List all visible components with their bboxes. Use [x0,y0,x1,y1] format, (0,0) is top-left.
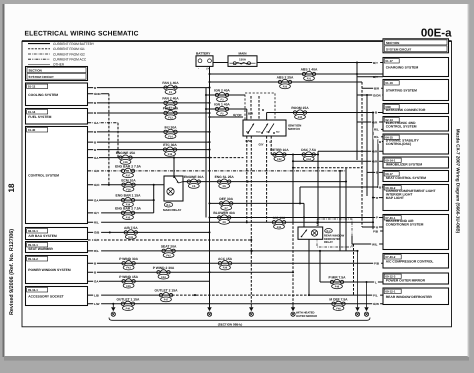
wire battery to main fuse [213,62,228,64]
svg-text:F41: F41 [129,236,134,239]
stub 4wd R/L [373,128,383,130]
stub heater R [362,226,383,228]
svg-text:F44: F44 [161,276,166,279]
svg-text:F34: F34 [306,158,311,161]
wire outlet2 dashed part [172,294,309,296]
ground G2 main bus [207,300,211,316]
wire vertical 357 [356,63,358,161]
noop [345,202,347,204]
svg-text:F26: F26 [223,267,228,270]
stub seat control B [367,171,383,173]
svg-text:F14: F14 [168,135,173,138]
svg-text:ACCESSORY SOCKET: ACCESSORY SOCKET [28,295,63,299]
svg-text:01-17: 01-17 [385,59,393,63]
svg-text:G/R: G/R [94,169,100,173]
wire DSC drop to relay [317,151,319,226]
wire G/R long dashdot [88,170,346,172]
fuse ENG BAR 2 7.5A lower [115,207,141,220]
svg-text:GND: GND [94,92,102,96]
svg-text:F32: F32 [277,158,282,161]
svg-text:F43: F43 [126,267,131,270]
wire cargo B [300,186,378,188]
right box power outer mirror [383,273,449,284]
svg-text:B/Y: B/Y [373,61,378,65]
svg-text:B/R: B/R [374,87,380,91]
svg-text:RELAY: RELAY [324,241,333,244]
dashed lead inside switch box [250,96,252,120]
svg-text:09-12-2: 09-12-2 [28,257,38,261]
fuse ABS 1 40A [301,68,318,81]
svg-text:P/L: P/L [373,293,378,297]
svg-text:CHARGING SYSTEM: CHARGING SYSTEM [386,66,419,70]
main fusible link MAIN 150A [228,52,257,67]
svg-text:18: 18 [7,183,16,192]
svg-text:F21: F21 [307,78,312,81]
fuse ECM 10A [121,178,136,191]
wire pwind B1 [88,262,383,264]
stub 4wd G/R [357,121,383,123]
wire control ECM [88,184,166,186]
svg-text:POWER WINDOW SYSTEM: POWER WINDOW SYSTEM [28,268,71,272]
svg-text:STARTING SYSTEM: STARTING SYSTEM [386,89,417,93]
wire METER row [271,154,318,156]
svg-text:150A: 150A [239,57,247,61]
fuse P WIND 30A [119,257,138,270]
right box charging system [383,58,449,77]
svg-text:G/W: G/W [373,302,379,306]
svg-text:-: - [198,67,199,71]
wire heater W/L from relay [352,243,383,245]
label P heater [375,216,379,220]
svg-text:P/B: P/B [373,229,379,233]
wire fuel B [88,112,210,114]
fuse METER sym [270,148,289,161]
right header box SECTION / SYSTEM CIRCUIT [383,39,449,53]
label G/R immob [371,159,379,163]
fuse DEF 30A [219,197,233,210]
fuse P MIR sym [329,276,347,289]
svg-text:MAIN: MAIN [239,52,248,56]
svg-text:F42: F42 [166,254,171,257]
fuse OUTLET 1 15A [116,297,140,310]
label G/W [372,302,380,306]
vertical cargo tap [299,187,301,203]
left box accessory socket [26,287,88,306]
dashed lead 2 inside switch box [258,96,260,120]
svg-text:Revised 9/2006 (Ref. No. R127/: Revised 9/2006 (Ref. No. R127/06) [9,229,15,315]
svg-text:CURRENT FROM IG1: CURRENT FROM IG1 [53,47,85,51]
label G/R dsc [371,149,379,153]
label L mirror [374,280,378,284]
wire BLOWER row to heater [210,217,384,219]
legend current from battery [28,43,50,45]
wire G/R to immobilizer [293,160,383,162]
secondary vertical bus [205,88,207,218]
wire vertical 362 dashed [361,82,363,227]
svg-text:Mazda CX-7 2007 Wiring Diagram: Mazda CX-7 2007 Wiring Diagram (5666-1U-… [456,129,461,234]
vertical relay bottom to P/L [308,239,310,295]
wire B/Y charging lower [357,76,383,78]
left box seat warmer [26,242,88,253]
svg-text:F48: F48 [336,307,341,310]
vertical to P MIR [319,251,321,282]
vertical dashed to ground [292,222,294,307]
svg-text:F15: F15 [168,153,173,156]
wire control B1 [88,131,210,133]
svg-text:F30: F30 [298,116,303,119]
label P/B a/c comp [373,261,381,265]
svg-text:F40: F40 [126,307,131,310]
wire DEF row [210,202,305,204]
wire cooling GND [88,93,109,95]
bottom section line [109,318,370,321]
bus 373 [372,113,374,232]
svg-text:08-10-1: 08-10-1 [28,229,38,233]
fuse ACC 15A [218,257,233,270]
main relay box [164,176,183,201]
fuse P WIND 15A [119,275,138,288]
label G/OR [372,93,382,97]
svg-text:F47: F47 [164,299,169,302]
legend current from ACC [28,58,50,60]
relay top feed [173,158,175,176]
svg-text:L/W: L/W [94,302,100,306]
svg-text:01-14: 01-14 [28,110,36,114]
svg-text:G/O: G/O [94,183,100,187]
vertical meter branch [292,155,294,223]
left box air bag system [26,228,88,240]
right box starting system [383,80,449,101]
wire main fuse output B/Y to charging [257,62,383,64]
svg-text:F33: F33 [277,226,282,229]
fuse A/B 7.5A [124,226,138,239]
relay output drop [351,236,353,244]
svg-text:MAP LIGHT: MAP LIGHT [386,196,404,200]
ground G1 [111,304,115,317]
wire airbag G/B [88,231,210,233]
svg-text:G/R: G/R [94,238,100,242]
wire control B2 [88,141,210,143]
fuse ETC 30A [163,143,177,156]
svg-text:POWER OUTER MIRROR: POWER OUTER MIRROR [386,279,426,283]
wire fuel GA [88,122,118,124]
svg-text:F45: F45 [126,285,131,288]
fuse FAN 1 40A [162,81,179,94]
fuse DSC sym [301,148,316,161]
svg-text:R-2: R-2 [326,230,331,233]
svg-text:F13: F13 [168,117,173,120]
svg-text:L: L [375,280,377,284]
wire control RL [88,221,373,223]
fuse A/C 10A sym [272,216,286,229]
ignition switch SW1 [243,120,286,136]
wire ign1 drop to switch [246,109,248,120]
bus 346 [345,168,347,251]
svg-text:SEAT CONTROL SYSTEM: SEAT CONTROL SYSTEM [386,176,426,180]
rear def relay dashed enclosure [317,219,352,247]
svg-text:09-16-1: 09-16-1 [28,288,38,292]
svg-text:F35: F35 [126,216,131,219]
dashed lead IG2 down [270,136,272,155]
svg-text:F38: F38 [126,188,131,191]
fuse ENGINE 15A [116,151,136,164]
dashed continuation engine row [210,157,244,159]
svg-text:G/Y: G/Y [94,211,99,215]
right box a/c compressor [383,254,449,269]
label B/Y 2 [372,75,380,79]
svg-text:F46: F46 [335,286,340,289]
fuse OUTLET 2 15A [155,289,179,302]
svg-text:CURRENT FROM IG2: CURRENT FROM IG2 [53,52,85,56]
wire ABS2 row [210,81,363,83]
svg-text:G/B: G/B [94,231,100,235]
fuse ENGINE 30A [184,175,204,188]
svg-text:DATA-LINK CONNECTOR: DATA-LINK CONNECTOR [386,108,426,112]
fuse FUEL 30A [163,107,179,120]
dashed lead IG1 down [266,136,268,222]
svg-text:G(Y)R: G(Y)R [233,113,242,117]
stub dsc R/L [373,136,383,138]
wire control ENG BAR 2b [88,212,154,214]
right box rear window defroster [383,288,449,305]
main vertical bus from battery [209,67,211,308]
right box cargo light [383,185,449,211]
fuse ABS 2 25A [277,76,294,89]
stub cargo B [378,186,383,188]
fuse M DEF 7.5A [329,297,348,310]
wire control ENG BAR 1 [88,199,154,201]
wire engine 30A row [183,181,346,183]
svg-text:00E-a: 00E-a [421,28,452,40]
svg-text:SECTION: SECTION [386,41,399,45]
left box cooling system [26,83,88,106]
fuse IGN 1 40A sym [214,103,230,116]
svg-text:COOLING SYSTEM: COOLING SYSTEM [28,93,58,97]
ground G3 [249,305,253,316]
svg-text:R/L: R/L [94,220,99,224]
right box electronic 4wd [383,117,449,132]
wire seat warmer R/L [88,250,358,252]
bus 340 [339,171,341,251]
svg-text:SEAT WARMER: SEAT WARMER [28,247,53,251]
wire outlet1 L/W [88,303,383,305]
svg-text:R/L: R/L [374,128,379,132]
wire ROOM row to data-link [267,112,383,114]
svg-text:R/L: R/L [94,249,99,253]
dashed lead G/Y down [250,136,252,305]
label B data-link [374,110,378,114]
wire G(Y)R to switch [210,116,244,118]
legend other [28,63,50,65]
dashed lead B/W down [246,136,248,222]
vertical relay feed [153,185,155,213]
right box immobilizer [383,157,449,168]
right box dsc [383,134,449,154]
fuse INJ 30A [164,126,177,139]
wire control B3 [88,149,210,151]
svg-text:01-40: 01-40 [28,128,36,132]
left header box SECTION / SYSTEM CIRCUIT [26,67,88,81]
svg-text:F22: F22 [283,86,288,89]
svg-text:01-19: 01-19 [385,81,393,85]
svg-text:G/Y: G/Y [259,143,264,147]
label P/L [372,293,380,297]
wire P/L to rear def [309,294,383,296]
svg-text:P/B: P/B [374,261,380,265]
svg-text:MAIN RELAY: MAIN RELAY [163,208,181,212]
svg-text:IMMOBILIZER SYSTEM: IMMOBILIZER SYSTEM [386,163,423,167]
svg-text:R-1: R-1 [166,204,171,207]
svg-text:REAR WINDOW DEFROSTER: REAR WINDOW DEFROSTER [386,295,433,299]
wire control GA engine [88,157,210,159]
label B/Y [372,61,380,65]
dashed wire to 362 [293,167,362,169]
fuse ENG SL 25A [215,175,235,188]
wire P MIR row [320,281,383,283]
svg-text:01-12: 01-12 [28,85,36,89]
svg-text:SYSTEM CIRCUIT: SYSTEM CIRCUIT [386,47,412,51]
wire pwind GA [88,280,210,282]
svg-text:09-12-1: 09-12-1 [385,290,395,294]
svg-text:W/L: W/L [372,242,378,246]
left box control system [26,127,88,224]
svg-text:F37: F37 [126,174,131,177]
svg-text:(SECTION 09B-b): (SECTION 09B-b) [218,322,243,326]
ground G7 [364,282,368,316]
svg-text:CONTROL SYSTEM: CONTROL SYSTEM [28,174,59,178]
svg-text:CONDITIONER SYSTEM: CONDITIONER SYSTEM [386,222,424,226]
wire outlet2 L/B [88,294,172,296]
ignition switch dashed box [245,93,275,120]
dashed vertical 353.5 [353,244,355,295]
legend current from IG2 [28,53,50,55]
svg-text:AIR BAG SYSTEM: AIR BAG SYSTEM [28,234,57,238]
wire pwind B2 [88,271,293,273]
wire IGN2 row [206,94,245,96]
wire airbag G/R dashed [88,239,251,241]
fuse FAN 2 40A [162,97,179,110]
frame border [22,41,452,327]
wire room drop to switch [266,113,268,121]
right box data-link connector [383,104,449,114]
dashed vertical GA [117,123,119,158]
svg-text:SYSTEM CIRCUIT: SYSTEM CIRCUIT [29,75,55,79]
svg-text:FUEL SYSTEM: FUEL SYSTEM [28,115,51,119]
label B/R [373,86,381,90]
svg-text:L/B: L/B [94,293,100,297]
rear def relay id oval [325,229,333,233]
svg-text:ELECTRICAL WIRING SCHEMATIC: ELECTRICAL WIRING SCHEMATIC [25,31,139,38]
wire DSC output G/R [318,150,383,152]
dashed vertical gnd [108,94,110,185]
svg-text:A/C COMPRESSOR CONTROL: A/C COMPRESSOR CONTROL [386,259,434,263]
left box power window system [26,256,88,284]
left box fuel system [26,109,88,125]
bus 378 [377,137,379,187]
rear window defroster relay [298,227,323,239]
fuse IGN 2 40A sym [214,89,230,102]
battery B1 [196,51,213,70]
svg-text:CURRENT FROM ACC: CURRENT FROM ACC [53,58,87,62]
ground G6 [355,251,359,316]
wire cooling B2 [88,102,210,104]
bus 367 [366,95,368,196]
fuse ENG BAR 2 7.5A [115,165,141,178]
stub heater P/B [373,230,383,232]
legend current from IG1 [28,48,50,50]
fuse SEAT 20A [161,245,177,258]
svg-text:CONTROL(DSC): CONTROL(DSC) [386,142,411,146]
svg-text:CONTROL SYSTEM: CONTROL SYSTEM [386,124,417,128]
fuse P WIND 2 30A [153,266,175,279]
stub cargo R [373,197,383,199]
svg-text:G/OR: G/OR [373,93,382,97]
stub dsc B [378,141,383,143]
fuse ROOM 15A sym [291,106,309,119]
main relay id oval [164,202,172,207]
svg-text:CURRENT FROM BATTERY: CURRENT FROM BATTERY [53,42,95,46]
svg-text:R/L: R/L [374,135,379,139]
svg-text:BATTERY: BATTERY [196,51,211,55]
svg-text:SECTION: SECTION [29,69,42,73]
svg-text:ACC: ACC [256,130,261,133]
right box seat control [383,171,449,182]
wire IGN1 row [206,108,247,110]
svg-text:SWITCH: SWITCH [288,127,300,131]
svg-text:P: P [376,216,378,220]
fuse BLOWER 40A [213,211,235,224]
wire ABS1 row [210,73,384,75]
def drop to relay [303,203,305,227]
right box heater a/c [383,215,449,250]
wire B/R to starting [362,87,383,89]
wire cooling B1 [88,87,210,89]
wire G/OR to starting [357,94,383,96]
ground G4 [291,302,295,316]
fuse ENG BAR 1 15A [116,194,142,207]
svg-text:OUTER MIRROR: OUTER MIRROR [296,315,317,318]
